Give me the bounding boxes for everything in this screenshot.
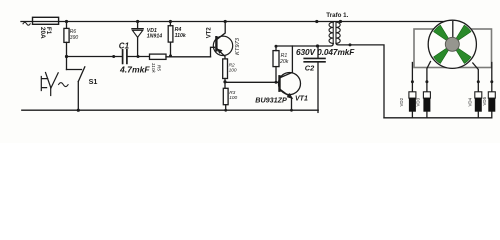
- node dot above VD5: [490, 80, 493, 83]
- transistor VT1: [279, 46, 301, 110]
- svg-text:VD5: VD5: [482, 96, 487, 105]
- wire fan to VD5: [491, 63, 493, 92]
- node dot above VD4: [477, 80, 480, 83]
- node junction C2 wire: [316, 44, 319, 47]
- node junction R6 top: [65, 20, 68, 23]
- svg-text:VT1: VT1: [295, 96, 308, 103]
- svg-text:100: 100: [229, 95, 237, 101]
- node junction R4 bottom: [169, 54, 172, 57]
- label VD4 rotated: [468, 97, 473, 106]
- wire top rail: [21, 21, 453, 23]
- label VD5 rotated: [482, 96, 487, 105]
- node junction R3 bottom: [224, 109, 227, 112]
- label VD3 rotated: [416, 97, 421, 106]
- wire primary bottom: [276, 44, 333, 46]
- svg-text:Trafo 1.: Trafo 1.: [326, 12, 348, 19]
- plug X1: [41, 73, 68, 96]
- label VD2 rotated: [399, 97, 404, 106]
- label R5 110k rotated: [150, 63, 161, 74]
- diode VD1: [132, 22, 143, 57]
- wire VT2 base: [211, 47, 215, 57]
- svg-text:1N914: 1N914: [147, 34, 162, 40]
- node dot on secondary wire: [349, 43, 352, 46]
- svg-text:VD2: VD2: [399, 97, 404, 106]
- svg-text:VD3: VD3: [416, 97, 421, 106]
- diode VD4: [475, 92, 482, 118]
- svg-text:390: 390: [70, 35, 79, 41]
- svg-text:R5: R5: [156, 65, 162, 71]
- fan M1: [428, 20, 476, 68]
- svg-text:R2: R2: [229, 62, 235, 68]
- fan frame: [414, 29, 492, 68]
- wire VT1 base: [225, 81, 278, 83]
- svg-text:4.7mkF: 4.7mkF: [119, 64, 150, 74]
- fuse F1: [33, 17, 59, 24]
- resistor R1: [273, 46, 279, 82]
- svg-text:KT973: KT973: [235, 37, 241, 55]
- wire secondary bottom: [336, 43, 384, 117]
- node dot above VD3: [425, 80, 428, 83]
- svg-text:VD4: VD4: [468, 97, 473, 106]
- node junction VT1 emitter bottom: [290, 109, 293, 112]
- label R2 100: [229, 62, 237, 73]
- node junction VT2 collector top: [224, 20, 227, 23]
- node dot above VD2: [411, 80, 414, 83]
- node junction R2-R3: [223, 80, 226, 83]
- resistor R6: [64, 22, 69, 57]
- svg-text:110k: 110k: [150, 63, 156, 74]
- svg-text:20A: 20A: [39, 27, 46, 39]
- svg-text:BU931ZP: BU931ZP: [255, 96, 287, 105]
- transistor VT2: [213, 22, 232, 60]
- wire fan to VD2: [411, 63, 413, 92]
- wire S1 column: [66, 57, 68, 70]
- diode VD2: [409, 92, 416, 118]
- resistor R3: [223, 88, 228, 110]
- node junction R1 bottom: [275, 81, 278, 84]
- transformer T1 windings: [329, 22, 340, 44]
- label VD1 1N914: [147, 28, 162, 39]
- svg-text:VT2: VT2: [207, 27, 213, 39]
- label R4 110k: [175, 27, 187, 39]
- svg-text:630V 0.047mkF: 630V 0.047mkF: [296, 47, 355, 57]
- capacitor C1: [123, 50, 127, 64]
- resistor R2: [223, 59, 228, 88]
- svg-text:100: 100: [229, 67, 237, 73]
- node junction VD1 top: [136, 20, 139, 23]
- wire bottom rail left: [22, 109, 318, 111]
- wire C1 row: [67, 56, 150, 58]
- switch S1: [67, 67, 85, 110]
- node junction secondary top: [339, 20, 342, 23]
- node junction primary top: [315, 20, 318, 23]
- node junction VD1 bottom: [137, 55, 140, 58]
- svg-text:20k: 20k: [279, 59, 289, 65]
- wire fan to VD3: [427, 62, 431, 92]
- resistor R5: [150, 54, 211, 59]
- svg-text:S1: S1: [89, 77, 98, 86]
- wire bottom rail right: [384, 110, 492, 118]
- svg-text:R3: R3: [229, 90, 235, 96]
- node junction R4 top: [169, 20, 172, 23]
- label R3 100: [229, 90, 237, 101]
- label F1 20A: [39, 27, 52, 39]
- node junction S1 bottom: [77, 109, 80, 112]
- wire fan drop from top rail: [452, 22, 454, 41]
- node junction R1 top: [275, 45, 278, 48]
- node dot on C1 wire: [112, 55, 115, 58]
- label R6 390: [70, 29, 79, 41]
- resistor R4: [168, 22, 173, 56]
- label R1 20k: [279, 53, 289, 65]
- label VT2 rotated: [207, 27, 213, 39]
- label KT973 rotated: [235, 37, 241, 55]
- diode VD3: [423, 92, 430, 118]
- svg-text:C1: C1: [119, 41, 130, 50]
- svg-text:C2: C2: [305, 63, 315, 72]
- capacitor C2: [304, 46, 325, 112]
- node AC input tilde: [23, 22, 30, 25]
- node junction R6-C1: [65, 55, 68, 58]
- diode VD5: [488, 92, 495, 112]
- svg-text:110k: 110k: [175, 33, 187, 39]
- wire fan to VD4: [473, 63, 479, 92]
